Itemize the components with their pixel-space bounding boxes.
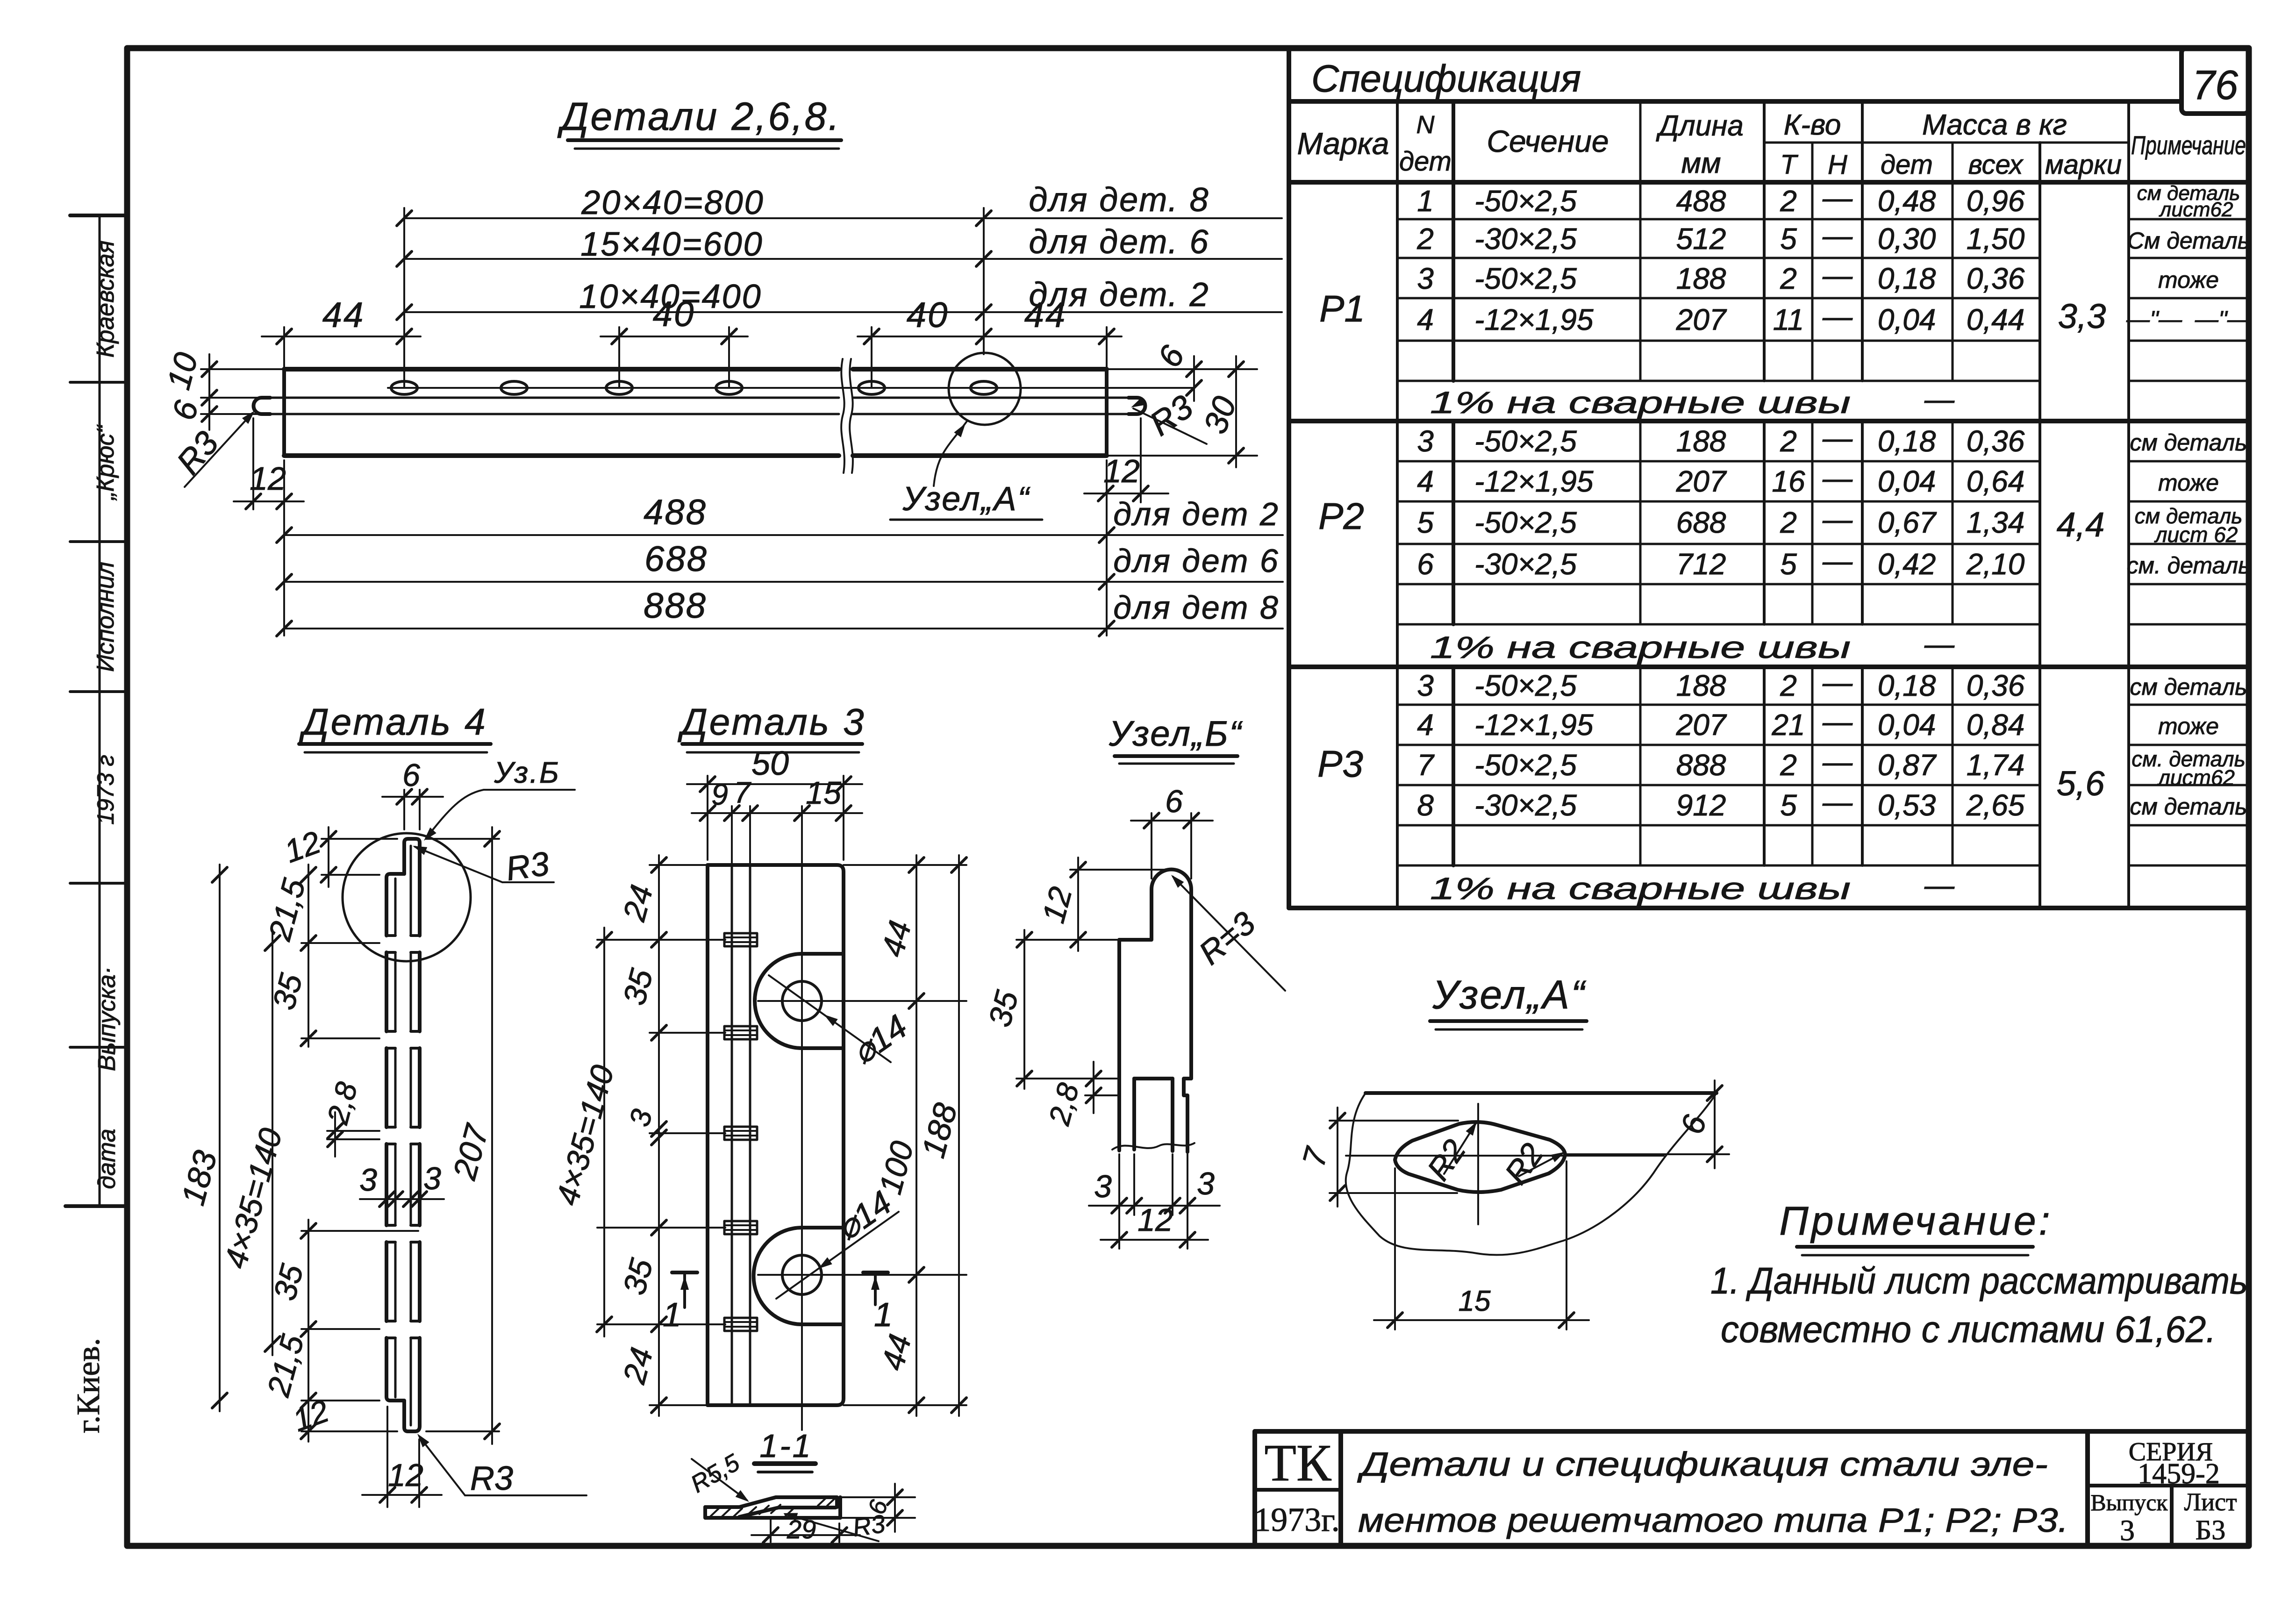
svg-text:16: 16 xyxy=(1772,465,1805,498)
svg-text:1% на сварные швы: 1% на сварные швы xyxy=(1430,630,1851,665)
svg-text:188: 188 xyxy=(1676,669,1726,702)
table header texts xyxy=(1297,109,2246,180)
svg-text:0,67: 0,67 xyxy=(1878,506,1937,539)
svg-text:дата: дата xyxy=(93,1129,121,1189)
dim 12 bottom left xyxy=(288,1393,397,1439)
svg-text:марки: марки xyxy=(2045,150,2122,180)
detail 4 part outline xyxy=(386,839,420,1431)
dim 21,5 lower xyxy=(260,1331,379,1408)
dim 688 xyxy=(277,539,1283,589)
svg-text:5: 5 xyxy=(1780,788,1797,822)
svg-text:44: 44 xyxy=(322,295,365,335)
svg-text:5: 5 xyxy=(1780,547,1797,581)
dim 40 mid xyxy=(601,294,748,344)
svg-text:688: 688 xyxy=(644,539,708,579)
svg-text:Исполнил: Исполнил xyxy=(92,562,119,672)
svg-text:3: 3 xyxy=(1094,1169,1112,1204)
title Деталь 3 xyxy=(677,701,865,752)
bottom hole d14 xyxy=(758,1255,966,1294)
dim 12 right xyxy=(1084,418,1168,502)
title Узел Б xyxy=(1109,714,1243,764)
svg-text:—: — xyxy=(1822,421,1853,455)
svg-text:40: 40 xyxy=(653,294,695,334)
section title 1-1 xyxy=(754,1428,815,1472)
label R3 right xyxy=(1129,388,1207,444)
svg-text:R3: R3 xyxy=(470,1460,513,1497)
svg-text:1,50: 1,50 xyxy=(1967,222,2025,256)
svg-text:ментов решетчатого типа Р1; Р2: ментов решетчатого типа Р1; Р2; Р3. xyxy=(1358,1502,2068,1539)
node A axis lines xyxy=(1346,1104,1664,1224)
svg-text:9: 9 xyxy=(711,778,728,811)
svg-text:тоже: тоже xyxy=(2158,713,2219,739)
dim 35 node B xyxy=(982,930,1117,1089)
svg-text:3: 3 xyxy=(359,1162,377,1198)
svg-text:4: 4 xyxy=(1417,303,1434,336)
dim 188 xyxy=(915,855,966,1416)
detail 3 strip lines xyxy=(732,865,750,1405)
svg-text:R3: R3 xyxy=(851,1510,887,1542)
svg-text:см деталь: см деталь xyxy=(2130,429,2247,456)
svg-text:1973 г: 1973 г xyxy=(93,755,119,825)
right extension lines detail 3 xyxy=(844,865,966,1405)
svg-text:0,36: 0,36 xyxy=(1967,262,2025,295)
svg-text:Спецификация: Спецификация xyxy=(1311,57,1581,100)
svg-text:Детали и спецификация стали эл: Детали и спецификация стали эле- xyxy=(1357,1446,2048,1483)
svg-text:3: 3 xyxy=(423,1161,441,1196)
logo ТК xyxy=(1264,1434,1331,1492)
stamp text дата xyxy=(93,1129,121,1189)
svg-text:0,48: 0,48 xyxy=(1878,184,1936,218)
dim 183 chain xyxy=(174,865,227,1411)
svg-text:15×40=600: 15×40=600 xyxy=(580,226,763,263)
svg-text:2,10: 2,10 xyxy=(1966,547,2025,581)
svg-text:См деталь: См деталь xyxy=(2127,228,2250,254)
svg-text:дет: дет xyxy=(1399,146,1452,177)
svg-text:Узел„Б“: Узел„Б“ xyxy=(1109,714,1243,754)
svg-text:см. деталь: см. деталь xyxy=(2127,552,2251,579)
svg-text:тоже: тоже xyxy=(2158,470,2219,496)
page number box 76 xyxy=(2182,48,2249,114)
dim 888 xyxy=(277,586,1283,636)
stamp text Краевская xyxy=(92,241,119,358)
svg-text:4: 4 xyxy=(1417,465,1434,498)
node A torn patch outline xyxy=(1346,1093,1717,1255)
svg-text:188: 188 xyxy=(1676,262,1726,295)
left stamp strip xyxy=(65,215,127,1206)
svg-text:2: 2 xyxy=(1780,262,1797,295)
dim chain 44/100/44 xyxy=(873,855,924,1416)
svg-text:Лист: Лист xyxy=(2184,1488,2237,1516)
svg-text:-30×2,5: -30×2,5 xyxy=(1474,547,1577,581)
svg-text:207: 207 xyxy=(1676,465,1727,498)
svg-text:-50×2,5: -50×2,5 xyxy=(1474,184,1577,218)
svg-text:—: — xyxy=(1822,258,1853,292)
svg-text:2: 2 xyxy=(1780,669,1797,702)
svg-text:0,44: 0,44 xyxy=(1967,303,2025,336)
stamp text 1973г xyxy=(93,755,119,825)
svg-text:см деталь: см деталь xyxy=(2130,674,2247,700)
svg-text:Краевская: Краевская xyxy=(92,241,119,358)
svg-text:20×40=800: 20×40=800 xyxy=(581,184,764,222)
svg-text:—: — xyxy=(1924,868,1955,902)
svg-text:Б3: Б3 xyxy=(2196,1515,2225,1545)
dim 35 upper xyxy=(266,970,379,1046)
svg-text:Примечание:: Примечание: xyxy=(1779,1199,2053,1244)
issue label xyxy=(2090,1489,2168,1547)
svg-text:для дет. 8: для дет. 8 xyxy=(1029,181,1209,219)
label Уз Б xyxy=(421,756,575,843)
svg-text:—: — xyxy=(1822,705,1853,738)
dim 20x40=800 xyxy=(397,181,1282,226)
svg-text:Масса в кг: Масса в кг xyxy=(1922,109,2067,141)
svg-text:488: 488 xyxy=(644,493,707,532)
svg-text:0,18: 0,18 xyxy=(1878,669,1936,702)
specification table grid xyxy=(1289,48,2249,908)
svg-text:дет: дет xyxy=(1881,150,1933,180)
svg-text:0,18: 0,18 xyxy=(1878,262,1936,295)
svg-text:Узел„А“: Узел„А“ xyxy=(902,480,1030,518)
stamp text Выпуска xyxy=(93,966,121,1071)
dim 6 section xyxy=(840,1484,915,1532)
svg-text:Сечение: Сечение xyxy=(1487,124,1609,158)
margin text г.Киев. xyxy=(71,1338,107,1433)
svg-text:лист62: лист62 xyxy=(2157,765,2235,790)
svg-text:Примечание: Примечание xyxy=(2131,130,2246,160)
svg-text:188: 188 xyxy=(1676,424,1726,458)
svg-text:2: 2 xyxy=(1780,424,1797,458)
svg-text:Выпуск: Выпуск xyxy=(2090,1489,2168,1515)
svg-text:1: 1 xyxy=(874,1296,893,1334)
svg-text:12: 12 xyxy=(388,1458,423,1493)
svg-text:-50×2,5: -50×2,5 xyxy=(1474,262,1577,295)
svg-text:488: 488 xyxy=(1676,184,1726,218)
extension lines for hole pitch xyxy=(404,208,984,387)
dim 488 xyxy=(277,460,1283,636)
svg-text:3: 3 xyxy=(1197,1166,1215,1201)
svg-text:N: N xyxy=(1416,111,1435,139)
svg-text:Узел„А“: Узел„А“ xyxy=(1432,972,1586,1017)
svg-text:-30×2,5: -30×2,5 xyxy=(1474,222,1577,256)
dim 6 node B xyxy=(1131,784,1213,879)
svg-text:6: 6 xyxy=(402,758,420,793)
svg-text:2: 2 xyxy=(1780,506,1797,539)
dim 10x40=400 xyxy=(397,276,1282,320)
svg-text:—: — xyxy=(1924,627,1955,661)
dim 7 node A xyxy=(1296,1108,1458,1207)
svg-text:0,04: 0,04 xyxy=(1878,708,1936,742)
node B profile outline xyxy=(1112,870,1194,1152)
svg-text:0,87: 0,87 xyxy=(1878,748,1937,782)
dim 35 lower xyxy=(267,1220,379,1442)
svg-text:-50×2,5: -50×2,5 xyxy=(1474,669,1577,702)
svg-text:Р3: Р3 xyxy=(1317,743,1363,785)
stamp text Исполнил xyxy=(92,562,119,672)
title Узел А xyxy=(1430,972,1587,1029)
svg-text:40: 40 xyxy=(907,295,949,335)
svg-text:Т: Т xyxy=(1780,150,1798,180)
svg-text:12: 12 xyxy=(250,460,286,497)
svg-text:1459-2: 1459-2 xyxy=(2138,1458,2220,1490)
top hole d14 xyxy=(758,981,966,1021)
section mark 1 left xyxy=(663,1272,697,1334)
svg-text:см деталь: см деталь xyxy=(2130,793,2247,820)
svg-text:всех: всех xyxy=(1968,150,2024,180)
svg-text:—ʹʹ— —ʹʹ—: —ʹʹ— —ʹʹ— xyxy=(2126,306,2251,332)
svg-text:0,36: 0,36 xyxy=(1967,669,2025,702)
svg-text:—: — xyxy=(1822,665,1853,699)
dims 10 and 6 left xyxy=(160,349,284,430)
dim 44 right xyxy=(972,295,1122,369)
svg-text:Уз.Б: Уз.Б xyxy=(494,756,560,789)
dim 21,5 upper xyxy=(262,865,379,1047)
svg-text:-12×1,95: -12×1,95 xyxy=(1474,303,1594,336)
svg-text:0,04: 0,04 xyxy=(1878,465,1936,498)
svg-text:7: 7 xyxy=(734,776,751,809)
node A slot shape xyxy=(1395,1122,1565,1192)
svg-text:15: 15 xyxy=(806,775,841,811)
svg-text:3: 3 xyxy=(1417,262,1434,295)
svg-text:г.Киев.: г.Киев. xyxy=(71,1338,107,1433)
label R2 right xyxy=(1498,1137,1567,1191)
dim 207 xyxy=(426,827,500,1444)
dims 9 7 15 xyxy=(692,775,862,865)
dim 15 node A xyxy=(1374,1161,1589,1329)
dim 12 top left xyxy=(280,824,397,887)
slotted holes xyxy=(391,381,997,394)
svg-text:—: — xyxy=(1822,544,1853,578)
svg-text:0,53: 0,53 xyxy=(1878,788,1936,822)
dims 3 3 node B xyxy=(1089,1154,1220,1249)
title Детали 2,6,8 xyxy=(557,94,841,149)
svg-text:688: 688 xyxy=(1676,506,1726,539)
dim 4x35=140 chain xyxy=(218,930,289,1355)
svg-text:К-во: К-во xyxy=(1784,109,1841,141)
dim 15x40=600 xyxy=(397,223,1282,266)
svg-text:Р2: Р2 xyxy=(1318,495,1364,537)
svg-text:—: — xyxy=(1822,181,1853,214)
dim 6 top of detail 4 xyxy=(382,758,443,829)
sheet label xyxy=(2184,1488,2237,1545)
svg-text:0,04: 0,04 xyxy=(1878,303,1936,336)
node A callout circle xyxy=(934,353,1021,486)
svg-text:44: 44 xyxy=(1024,295,1067,335)
dim chain 24/35/3/35/24 xyxy=(616,855,666,1416)
svg-text:„Крюс“: „Крюс“ xyxy=(92,424,119,501)
svg-text:Н: Н xyxy=(1828,150,1847,180)
svg-text:для дет. 6: для дет. 6 xyxy=(1029,223,1209,261)
svg-text:6: 6 xyxy=(1417,547,1434,581)
svg-text:0,84: 0,84 xyxy=(1967,708,2025,742)
svg-text:15: 15 xyxy=(1459,1285,1491,1317)
svg-text:-50×2,5: -50×2,5 xyxy=(1474,424,1577,458)
detail 3 plate outline xyxy=(708,865,844,1405)
extension line mid xyxy=(301,1223,418,1238)
svg-text:4: 4 xyxy=(1417,708,1434,742)
svg-text:21: 21 xyxy=(1771,708,1805,742)
dim 44 left xyxy=(262,295,421,369)
svg-text:0,18: 0,18 xyxy=(1878,424,1936,458)
svg-text:Выпуска·: Выпуска· xyxy=(93,966,121,1071)
svg-text:мм: мм xyxy=(1681,147,1721,179)
title Деталь 4 xyxy=(299,701,491,752)
svg-text:совместно с листами 61,62.: совместно с листами 61,62. xyxy=(1721,1308,2216,1350)
dim 2,8 xyxy=(321,1079,379,1157)
weld rungs xyxy=(724,933,757,1331)
svg-text:—: — xyxy=(1822,219,1853,252)
bar fold sheet lines xyxy=(254,398,1145,414)
section mark 1 right xyxy=(863,1272,893,1334)
note line 2 xyxy=(1721,1308,2216,1350)
dim 6 right xyxy=(1107,340,1257,401)
label R=3 xyxy=(1168,872,1285,991)
svg-text:-30×2,5: -30×2,5 xyxy=(1474,788,1577,822)
dims 3 3 mid detail 4 xyxy=(359,1161,444,1207)
group P3 rows xyxy=(1317,665,2247,906)
svg-text:1: 1 xyxy=(1417,184,1434,218)
bottom slot cutout xyxy=(754,1228,844,1324)
svg-text:лист62: лист62 xyxy=(2159,198,2233,221)
svg-text:1% на сварные швы: 1% на сварные швы xyxy=(1430,871,1851,906)
series label xyxy=(2129,1437,2220,1490)
svg-text:0,30: 0,30 xyxy=(1878,222,1936,256)
svg-text:лист 62: лист 62 xyxy=(2154,522,2238,547)
svg-text:1,34: 1,34 xyxy=(1967,506,2025,539)
dim 12 node B xyxy=(1036,858,1168,951)
svg-text:ТК: ТК xyxy=(1264,1434,1331,1492)
svg-text:888: 888 xyxy=(1676,748,1726,782)
svg-text:1973г.: 1973г. xyxy=(1254,1501,1339,1538)
svg-text:0,96: 0,96 xyxy=(1967,184,2025,218)
svg-text:5: 5 xyxy=(1417,506,1434,539)
svg-text:1,74: 1,74 xyxy=(1967,748,2025,782)
svg-text:912: 912 xyxy=(1676,788,1726,822)
svg-text:Деталь 4: Деталь 4 xyxy=(299,701,487,743)
svg-text:50: 50 xyxy=(751,745,789,782)
label R3 top xyxy=(411,842,554,888)
dim 12 bottom xyxy=(362,1407,442,1507)
svg-text:—: — xyxy=(1924,382,1955,416)
svg-text:4,4: 4,4 xyxy=(2057,505,2105,544)
svg-text:—: — xyxy=(1822,502,1853,536)
svg-text:0,36: 0,36 xyxy=(1967,424,2025,458)
svg-text:1. Данный лист рассматривать: 1. Данный лист рассматривать xyxy=(1710,1260,2248,1301)
svg-text:3: 3 xyxy=(1417,424,1434,458)
dim 40 right xyxy=(858,295,995,344)
svg-text:-50×2,5: -50×2,5 xyxy=(1474,748,1577,782)
sheet title line 1 xyxy=(1357,1446,2048,1483)
title block grid xyxy=(1255,1431,2249,1546)
svg-text:3,3: 3,3 xyxy=(2058,297,2106,336)
node B callout circle on detail 4 xyxy=(343,833,471,961)
dim 4x35=140 detail 3 xyxy=(550,928,621,1337)
svg-text:для дет 8: для дет 8 xyxy=(1113,589,1280,626)
svg-text:7: 7 xyxy=(1417,748,1435,782)
specification table header label xyxy=(1311,57,1581,100)
svg-text:-12×1,95: -12×1,95 xyxy=(1474,708,1594,742)
dim 2,8 node B xyxy=(1042,1062,1117,1129)
label R3 bottom xyxy=(414,1431,587,1497)
svg-text:Длина: Длина xyxy=(1656,110,1744,142)
label R5,5 xyxy=(686,1449,751,1505)
svg-text:3: 3 xyxy=(1417,669,1434,702)
svg-text:6: 6 xyxy=(1165,784,1183,819)
svg-text:2: 2 xyxy=(1780,748,1797,782)
svg-text:—: — xyxy=(1822,461,1853,495)
dim 12 left xyxy=(234,418,304,509)
svg-text:1: 1 xyxy=(663,1296,681,1334)
dim 30 right xyxy=(1107,356,1257,467)
svg-text:2: 2 xyxy=(1780,184,1797,218)
svg-text:76: 76 xyxy=(2192,62,2238,108)
svg-text:Р1: Р1 xyxy=(1319,288,1365,329)
svg-text:2,65: 2,65 xyxy=(1966,788,2025,822)
sheet title line 2 xyxy=(1358,1502,2068,1539)
node A sheet edge xyxy=(1366,1091,1717,1095)
bar break lines xyxy=(841,359,853,473)
svg-text:тоже: тоже xyxy=(2158,267,2219,293)
svg-text:0,42: 0,42 xyxy=(1878,547,1936,581)
svg-text:1% на сварные швы: 1% на сварные швы xyxy=(1430,385,1851,420)
svg-text:—: — xyxy=(1822,785,1853,819)
svg-text:12: 12 xyxy=(1137,1202,1173,1238)
left extension lines detail 3 xyxy=(597,865,725,1405)
svg-text:3: 3 xyxy=(2120,1514,2135,1547)
svg-text:2: 2 xyxy=(1416,222,1434,256)
dim 50 top xyxy=(687,745,862,860)
svg-text:Деталь 3: Деталь 3 xyxy=(677,701,865,743)
svg-text:5: 5 xyxy=(1780,222,1797,256)
svg-text:Детали 2,6,8.: Детали 2,6,8. xyxy=(557,94,841,138)
label R2 left xyxy=(1420,1119,1480,1186)
label R3 left xyxy=(170,408,258,487)
svg-text:8: 8 xyxy=(1417,788,1434,822)
slot hole centre line xyxy=(388,387,1193,389)
svg-text:0,64: 0,64 xyxy=(1967,465,2025,498)
svg-text:—: — xyxy=(1822,300,1853,333)
note heading Примечание xyxy=(1779,1199,2053,1255)
svg-text:—: — xyxy=(1822,745,1853,779)
detail 3 axis line xyxy=(801,806,803,1430)
group P1 rows xyxy=(1319,181,2251,420)
svg-text:Марка: Марка xyxy=(1297,126,1389,161)
svg-text:11: 11 xyxy=(1773,303,1804,336)
dim 12 node B bottom xyxy=(1101,1202,1208,1247)
svg-text:для дет 2: для дет 2 xyxy=(1113,496,1280,532)
svg-text:207: 207 xyxy=(1676,708,1727,742)
svg-text:5,6: 5,6 xyxy=(2057,764,2105,803)
group P2 rows xyxy=(1318,421,2250,665)
stamp signature Крюс xyxy=(92,424,119,501)
year 1973г xyxy=(1254,1501,1339,1538)
svg-text:207: 207 xyxy=(1676,303,1727,336)
svg-text:для дет 6: для дет 6 xyxy=(1113,543,1280,579)
bar detail 2,6,8 outline xyxy=(284,369,1107,456)
svg-text:1-1: 1-1 xyxy=(759,1428,812,1464)
svg-text:-50×2,5: -50×2,5 xyxy=(1474,506,1577,539)
svg-text:512: 512 xyxy=(1676,222,1726,256)
node A label xyxy=(890,480,1042,520)
svg-text:-12×1,95: -12×1,95 xyxy=(1474,465,1594,498)
svg-text:712: 712 xyxy=(1676,547,1726,581)
dim 6 node A xyxy=(1566,1080,1729,1168)
section 1-1 profile xyxy=(705,1497,840,1518)
svg-text:12: 12 xyxy=(1103,453,1140,489)
dim 29 section xyxy=(751,1515,860,1544)
note line 1 xyxy=(1710,1260,2248,1301)
label d14 bottom xyxy=(776,1184,899,1299)
label R3 section xyxy=(782,1509,887,1542)
top slot cutout xyxy=(755,954,844,1048)
